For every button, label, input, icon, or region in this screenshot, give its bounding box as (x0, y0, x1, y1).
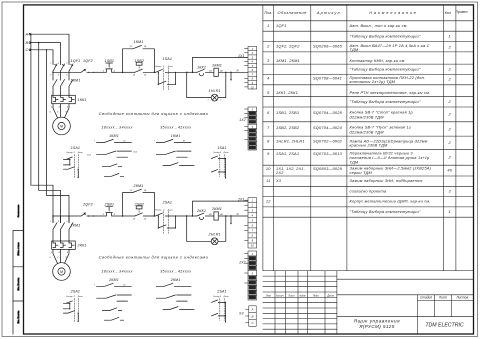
svg-text:согласно проекта: согласно проекта (350, 188, 387, 193)
svg-text:В: В (252, 314, 254, 318)
svg-text:Свободные контакты для ящиков: Свободные контакты для ящиков с индексам… (99, 255, 209, 260)
svg-text:10-2: 10-2 (133, 151, 138, 153)
terminal block 1X1 (238, 46, 257, 89)
circuit breaker 1QF1 (49, 59, 80, 77)
svg-text:4: 4 (58, 74, 59, 77)
junction dot bus B (38, 42, 39, 43)
svg-text:9: 9 (267, 151, 270, 156)
svg-text:контакты 2з+2р) ТДМ: контакты 2з+2р) ТДМ (350, 79, 396, 84)
svg-text:2: 2 (448, 45, 452, 50)
svg-text:7: 7 (267, 125, 270, 130)
svg-text:2КМ1: 2КМ1 (133, 184, 144, 188)
junction dot after coil (225, 72, 226, 73)
wire to 1SB2 (123, 71, 135, 73)
svg-text:1КК1: 1КК1 (197, 65, 206, 69)
svg-text:1КМ1: 1КМ1 (109, 134, 119, 138)
svg-text:1: 1 (449, 209, 451, 214)
svg-text:1: 1 (449, 33, 451, 38)
svg-text:13: 13 (130, 190, 133, 192)
svg-text:35хххх...42хххх: 35хххх...42хххх (160, 269, 191, 273)
svg-text:0: 0 (220, 296, 222, 298)
svg-text:Настр.: Настр. (155, 66, 162, 68)
node A input terminal (25, 33, 31, 37)
svg-text:1КМ1, 2КМ1: 1КМ1, 2КМ1 (276, 58, 300, 63)
svg-text:1SB2, 2SB2: 1SB2, 2SB2 (276, 125, 300, 130)
svg-text:Х3: Х3 (238, 312, 243, 316)
junction dot remote riser 2 (192, 215, 193, 216)
svg-text:V: V (57, 112, 59, 114)
svg-text:2SA1: 2SA1 (216, 290, 226, 294)
svg-text:0: 0 (74, 296, 76, 298)
svg-text:2HLR1: 2HLR1 (208, 233, 221, 237)
wire stubs into 1X2 (245, 109, 249, 139)
wire remote control to 2X1 (193, 201, 249, 216)
seal-in aux contact 1KM1 (123, 40, 155, 72)
aux contact group 2KM1 left (94, 278, 131, 320)
junction dot seal left (122, 72, 123, 73)
svg-text:Авт. Выкл., тип и хар-ки см.: Авт. Выкл., тип и хар-ки см. (349, 23, 408, 28)
svg-text:14: 14 (144, 217, 147, 220)
svg-text:1HLR1: 1HLR1 (209, 89, 221, 93)
terminal block 2X2 (238, 251, 256, 300)
svg-text:5: 5 (66, 63, 67, 65)
svg-text:Лист: Лист (438, 296, 448, 300)
pushbutton 2SB2 start (133, 203, 155, 221)
svg-text:1: 1 (50, 221, 51, 223)
signal lamp 2HLR1 (187, 216, 226, 245)
svg-text:d22мм/230В ТДМ: d22мм/230В ТДМ (350, 114, 385, 119)
svg-text:2КМ1: 2КМ1 (211, 207, 222, 211)
svg-text:"Таблицу Выбора комплектующии": "Таблицу Выбора комплектующии" (350, 209, 421, 214)
motor M2 (53, 263, 71, 281)
svg-text:SQ0708—0041: SQ0708—0041 (313, 75, 342, 80)
junction dot seal right (154, 72, 155, 73)
svg-text:13: 13 (133, 75, 136, 77)
selector 1SA1 free contacts right (212, 146, 230, 179)
svg-text:Артикул: Артикул (316, 10, 341, 15)
svg-text:Подп. и дата: Подп. и дата (17, 242, 20, 256)
motor M1 (53, 117, 71, 135)
wire phase A down-feeder (31, 34, 53, 222)
svg-text:2: 2 (49, 75, 51, 77)
svg-text:Кол: Кол (445, 11, 451, 15)
svg-text:2: 2 (219, 100, 222, 102)
thermal relay 1KK1 (52, 95, 87, 103)
junction dot lamp riser left (186, 72, 187, 73)
svg-text:М: М (60, 270, 63, 274)
svg-text:2Х2: 2Х2 (275, 170, 284, 175)
svg-text:Настр.: Настр. (67, 296, 74, 298)
wire to 1SB1 (94, 71, 106, 73)
wire remote control to 1X1 (193, 57, 249, 72)
aux contact group 1KM1 left (87, 134, 138, 176)
svg-text:0: 0 (163, 210, 165, 212)
svg-text:А2: А2 (219, 69, 223, 72)
wire stubs into 2X2 (245, 253, 249, 283)
wire bus B (31, 43, 61, 62)
svg-text:2SA1: 2SA1 (162, 201, 173, 205)
svg-text:Настр.: Настр. (155, 210, 162, 212)
svg-text:ТДМ: ТДМ (350, 160, 359, 165)
svg-text:Поз.: Поз. (264, 10, 272, 15)
svg-text:3: 3 (449, 188, 452, 193)
wire to 2KK1 contact (187, 215, 197, 217)
svg-text:А2: А2 (219, 213, 223, 216)
svg-text:"Таблицу Выбора комплектующии": "Таблицу Выбора комплектующии" (350, 33, 421, 38)
wire N tap down (230, 72, 232, 80)
svg-text:"Таблицу Выбора комплектующии": "Таблицу Выбора комплектующии" (350, 67, 421, 72)
svg-text:1Х1: 1Х1 (238, 54, 245, 58)
junction dot lamp riser left 2 (186, 215, 187, 216)
svg-text:SQ0702—0002: SQ0702—0002 (313, 139, 343, 144)
junction dot remote riser (192, 72, 193, 73)
pushbutton 1SB1 stop (103, 59, 123, 73)
title block (263, 271, 474, 334)
junction dot seal2 left (122, 215, 123, 216)
svg-text:35хххх...42хххх: 35хххх...42хххх (160, 125, 191, 129)
svg-text:Примеч: Примеч (455, 10, 467, 14)
svg-text:Авт. Выкл.ВА47—29 1Р 1А 4,5кА: Авт. Выкл.ВА47—29 1Р 1А 4,5кА х-ка С (349, 43, 430, 48)
wire to 2SB2 (123, 215, 135, 217)
signal lamp 1HLR1 (187, 72, 226, 101)
seal-in aux contact 2KM1 (123, 184, 155, 216)
thermal contact 2KK1 NC (196, 209, 214, 220)
svg-text:2: 2 (448, 77, 452, 82)
pushbutton 1SB2 start (133, 59, 155, 77)
svg-text:5: 5 (267, 90, 270, 95)
svg-text:2QF2: 2QF2 (82, 203, 93, 207)
svg-text:А: А (251, 308, 254, 312)
svg-text:А: А (25, 33, 29, 37)
wire stubs into X3 (246, 309, 249, 323)
svg-text:2: 2 (448, 99, 452, 104)
selector 2SA1 free contacts left (64, 290, 84, 322)
svg-text:1SA1: 1SA1 (217, 146, 226, 150)
svg-text:положения I—0—II длинная ручка: положения I—0—II длинная ручка 1з+1р (350, 155, 431, 160)
svg-text:Инв. № подл.: Инв. № подл. (17, 310, 20, 323)
svg-text:2SA1: 2SA1 (70, 290, 80, 294)
wire to 1KK1 contact (187, 71, 197, 73)
svg-text:1КМ1: 1КМ1 (71, 79, 81, 83)
junction dot bus C (46, 49, 47, 50)
svg-text:2КК1: 2КК1 (196, 209, 206, 213)
svg-text:1: 1 (267, 23, 269, 28)
svg-text:Дист.: Дист. (223, 152, 230, 154)
svg-text:6: 6 (267, 110, 270, 115)
svg-text:1QF1: 1QF1 (71, 59, 81, 63)
svg-text:2: 2 (448, 112, 452, 117)
svg-text:1: 1 (208, 100, 209, 102)
svg-text:1QF2: 1QF2 (83, 59, 93, 63)
contactor coil 2KM1 (208, 207, 248, 220)
wire N tap down 2 (230, 216, 232, 224)
selector 2SA1 free contacts right (212, 290, 230, 323)
aux contact group 2KM1 right (156, 278, 194, 310)
wire to 2SB1 (94, 215, 106, 217)
node C input terminal (26, 48, 31, 52)
svg-text:2КМ1: 2КМ1 (170, 278, 181, 282)
svg-text:Свободные контакты для ящиков: Свободные контакты для ящиков с индексам… (99, 111, 209, 116)
svg-text:2: 2 (448, 140, 452, 145)
svg-text:Дист.: Дист. (167, 66, 174, 68)
selector switch 2SA1 (155, 201, 186, 234)
svg-text:А1: А1 (208, 69, 211, 72)
svg-text:N: N (237, 68, 240, 72)
wire bus A (31, 34, 69, 62)
svg-text:1КК1, 2КК1: 1КК1, 2КК1 (276, 90, 298, 95)
svg-text:1SB1: 1SB1 (105, 59, 115, 63)
svg-text:М: М (60, 125, 63, 129)
svg-text:ТДМ: ТДМ (350, 47, 359, 52)
svg-text:Я(РУСМ) 5125: Я(РУСМ) 5125 (358, 324, 394, 329)
parts table header text (264, 10, 467, 15)
svg-text:TDM ELECTRIC: TDM ELECTRIC (425, 323, 464, 329)
svg-text:"Таблицу Выбора комплектующии": "Таблицу Выбора комплектующии" (350, 99, 421, 104)
aux contact group 1KM1 right (154, 134, 194, 166)
svg-text:7: 7 (94, 141, 96, 143)
svg-text:2КК1: 2КК1 (77, 244, 87, 248)
selector switch 1SA1 (155, 57, 186, 90)
svg-text:2КМ1: 2КМ1 (70, 224, 81, 228)
svg-text:13: 13 (130, 46, 133, 48)
svg-text:2: 2 (266, 44, 270, 49)
svg-text:SQ0703—0013: SQ0703—0013 (313, 151, 343, 156)
wires 2KK1 to motor (53, 249, 69, 264)
svg-text:Х3: Х3 (275, 178, 282, 183)
svg-text:SQ0704—0024: SQ0704—0024 (313, 125, 343, 130)
svg-text:серыи ТДМ: серыи ТДМ (350, 170, 373, 175)
wires 1KK1 to motor (53, 104, 69, 119)
svg-text:Кол.уч: Кол.уч (276, 294, 284, 297)
svg-text:1КМ1: 1КМ1 (134, 40, 144, 44)
svg-text:Наименование: Наименование (369, 10, 417, 15)
svg-text:Дист.: Дист. (167, 210, 174, 212)
svg-text:0: 0 (220, 152, 222, 154)
svg-text:0: 0 (74, 152, 76, 154)
pushbutton 2SB1 stop (103, 203, 123, 217)
svg-text:В: В (26, 41, 29, 45)
svg-text:V: V (57, 257, 59, 259)
svg-text:2: 2 (448, 127, 452, 132)
svg-text:1QF2, 2QF2: 1QF2, 2QF2 (276, 44, 300, 49)
svg-text:2Х2: 2Х2 (238, 261, 246, 265)
svg-text:Стадия: Стадия (420, 296, 432, 300)
terminal block 1X2 (239, 107, 256, 150)
parts table grid (263, 5, 474, 271)
svg-text:Подп.: Подп. (313, 294, 320, 297)
svg-text:2: 2 (448, 67, 452, 72)
svg-text:Дата: Дата (326, 294, 334, 297)
junction dot control tap (52, 72, 53, 73)
svg-text:Дист.: Дист. (223, 296, 230, 298)
svg-text:4: 4 (267, 75, 270, 80)
svg-text:1КМ1: 1КМ1 (171, 134, 181, 138)
svg-text:Листов: Листов (455, 296, 468, 300)
terminal block 2X1 (237, 198, 257, 248)
wire control tap from pole 1 (53, 71, 81, 73)
svg-text:5: 5 (66, 221, 67, 223)
svg-text:Инв. № подл.: Инв. № подл. (17, 277, 20, 290)
svg-text:7: 7 (154, 141, 156, 143)
svg-text:N: N (237, 212, 240, 216)
svg-text:красныи 230В ТДМ: красныи 230В ТДМ (350, 143, 389, 148)
svg-text:1КК1: 1КК1 (78, 98, 87, 102)
svg-text:Ящик управления: Ящик управления (353, 319, 400, 324)
wire stubs into 1X1 (245, 49, 249, 87)
svg-text:14: 14 (144, 45, 147, 48)
svg-text:2КМ1: 2КМ1 (108, 278, 119, 282)
svg-text:2SB1: 2SB1 (104, 203, 115, 207)
svg-text:1SA1, 2SA1: 1SA1, 2SA1 (276, 151, 299, 156)
parts table rows text (266, 23, 453, 214)
svg-text:U: U (50, 112, 52, 114)
svg-text:3: 3 (267, 58, 270, 63)
svg-text:1КМ1: 1КМ1 (212, 64, 222, 68)
svg-text:2: 2 (448, 155, 452, 160)
wire phase B down-feeder (39, 43, 61, 223)
thermal contact 1KK1 NC (197, 65, 214, 75)
wire control tap 2 (53, 215, 81, 217)
svg-text:1QF1: 1QF1 (276, 23, 287, 28)
svg-text:0: 0 (163, 66, 165, 68)
selector 1SA1 free contacts left (64, 146, 84, 178)
wire stubs into 2X1 (245, 200, 249, 240)
svg-text:6: 6 (66, 75, 67, 77)
svg-text:Реле РТН электротепловое, хар-: Реле РТН электротепловое, хар-кы см. (350, 90, 431, 95)
svg-text:1Х2: 1Х2 (239, 118, 246, 122)
contactor 2KM1 main contacts (50, 216, 80, 241)
svg-text:14: 14 (144, 189, 147, 192)
pin labels under 2KK1 (50, 251, 70, 259)
svg-text:1SA1: 1SA1 (71, 146, 80, 150)
svg-text:10-1: 10-1 (87, 154, 91, 156)
svg-text:1: 1 (50, 63, 51, 65)
terminal block X3 (238, 306, 256, 327)
svg-text:12: 12 (266, 199, 271, 204)
contactor coil 1KM1 (208, 64, 248, 77)
svg-text:11: 11 (266, 178, 270, 183)
wire phase C down-feeder (47, 50, 70, 223)
svg-text:2: 2 (50, 107, 53, 109)
junction dot control tap 2 (52, 215, 53, 216)
svg-text:№док: №док (299, 294, 306, 297)
svg-text:d22мм/230В ТДМ: d22мм/230В ТДМ (350, 129, 385, 134)
svg-text:3: 3 (58, 63, 59, 65)
svg-text:SQ0704—0025: SQ0704—0025 (313, 110, 343, 115)
svg-text:Контактор КМН, хар-ки см.: Контактор КМН, хар-ки см. (350, 58, 406, 63)
svg-text:Корпус металлическии ЩМП, хар-: Корпус металлическии ЩМП, хар-ки см. (350, 199, 431, 204)
svg-text:1HLR1, 2HLR1: 1HLR1, 2HLR1 (276, 139, 305, 144)
svg-text:14: 14 (144, 74, 147, 77)
thermal relay 2KK1 (52, 241, 87, 249)
left margin attribute boxes (13, 204, 24, 334)
svg-text:W: W (66, 112, 69, 114)
junction dot after coil 2 (225, 215, 226, 216)
svg-text:Настр.: Настр. (67, 152, 74, 154)
svg-text:8: 8 (267, 139, 270, 144)
pin labels under 1KK1 (50, 106, 70, 114)
svg-text:SQ0206—0065: SQ0206—0065 (313, 44, 343, 49)
junction dot seal2 right (154, 215, 155, 216)
svg-text:10: 10 (266, 166, 271, 171)
svg-text:7: 7 (94, 285, 96, 287)
svg-text:13: 13 (133, 218, 136, 220)
svg-text:1SB1, 2SB1: 1SB1, 2SB1 (276, 110, 299, 115)
svg-text:W: W (66, 257, 69, 259)
svg-text:Дист.: Дист. (77, 296, 84, 298)
svg-text:Зажим наборныи ЗНИ, подбираетс: Зажим наборныи ЗНИ, подбирается (350, 178, 423, 183)
svg-text:18хххх...34хххх: 18хххх...34хххх (101, 125, 132, 129)
svg-text:2: 2 (50, 252, 53, 254)
svg-text:SQ0803—0029: SQ0803—0029 (313, 166, 343, 171)
svg-text:1SA1: 1SA1 (163, 57, 173, 61)
svg-text:Изм: Изм (266, 294, 271, 297)
wire bus C (31, 50, 53, 62)
wire to 1SA1 (154, 71, 155, 73)
junction dot bus A (30, 34, 31, 35)
breaker 1QF2 (81, 59, 94, 73)
svg-text:Согласовано: Согласовано (18, 204, 20, 218)
svg-text:3: 3 (58, 221, 59, 223)
svg-text:А1: А1 (208, 213, 211, 216)
svg-text:U: U (50, 257, 52, 259)
svg-text:40: 40 (447, 168, 452, 173)
svg-text:С: С (26, 48, 29, 52)
svg-text:18хххх...34хххх: 18хххх...34хххх (101, 269, 132, 273)
contactor 1KM1 main contacts (53, 72, 80, 95)
svg-text:Лист: Лист (287, 294, 294, 297)
breaker 2QF2 (81, 203, 94, 217)
svg-text:Дист.: Дист. (77, 152, 84, 154)
node B input terminal (26, 41, 31, 45)
svg-text:Обозначение: Обозначение (278, 10, 308, 15)
svg-text:2Х1: 2Х1 (237, 198, 245, 202)
